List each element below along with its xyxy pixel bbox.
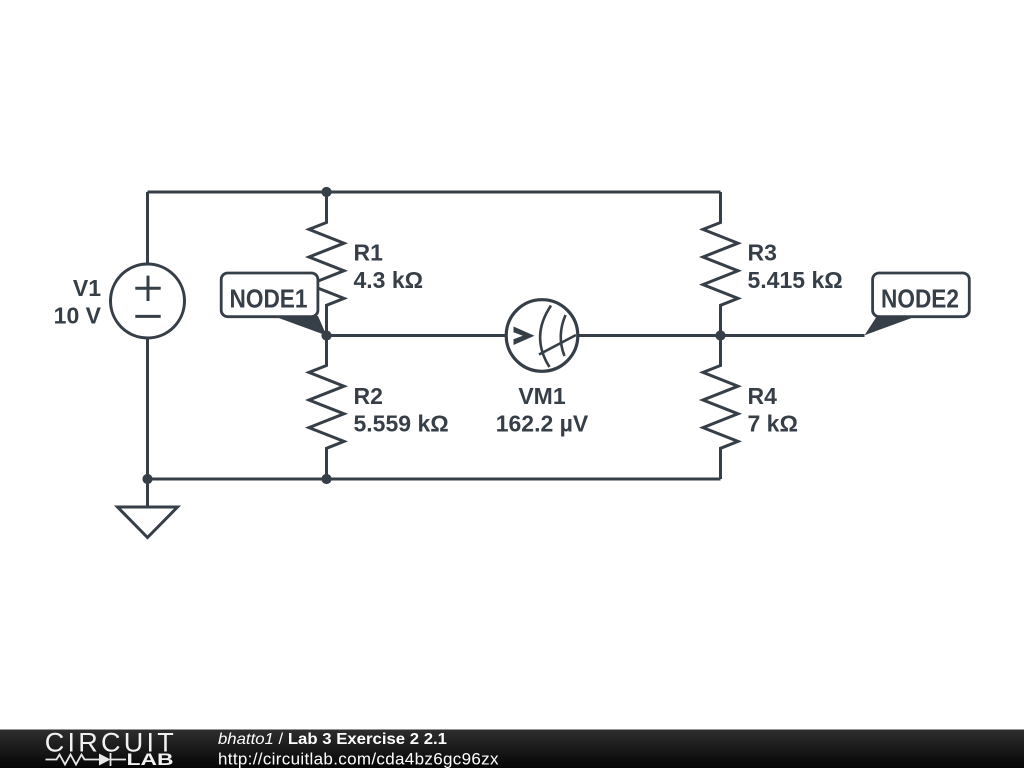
wire middle left — [327, 334, 507, 337]
node flag NODE2 — [865, 273, 970, 335]
resistor R2 — [309, 336, 344, 480]
svg-text:R1: R1 — [354, 240, 384, 266]
logo resistor-diode squiggle — [46, 753, 127, 766]
svg-text:NODE1: NODE1 — [230, 286, 308, 314]
svg-text:V1: V1 — [73, 275, 101, 301]
svg-text:VM1: VM1 — [518, 383, 566, 409]
wire V1 bottom lead — [146, 338, 149, 479]
node junction top-left branch — [321, 187, 331, 197]
resistor R1 — [309, 192, 344, 336]
resistor R3 — [703, 192, 738, 336]
svg-text:R3: R3 — [748, 240, 777, 266]
svg-text:bhatto1 / Lab 3 Exercise 2 2.1: bhatto1 / Lab 3 Exercise 2 2.1 — [218, 731, 447, 748]
footer bar — [0, 730, 1024, 768]
svg-text:NODE2: NODE2 — [881, 286, 959, 314]
node junction NODE2 — [715, 330, 725, 340]
node flag NODE1 — [221, 273, 326, 336]
wire middle right — [578, 334, 721, 337]
wire bottom rail — [148, 478, 721, 481]
ground — [118, 507, 178, 538]
node junction ground — [142, 474, 152, 484]
svg-text:7 kΩ: 7 kΩ — [748, 411, 798, 437]
voltmeter V letter — [514, 327, 535, 346]
wire to NODE2 — [721, 334, 865, 337]
svg-text:5.415 kΩ: 5.415 kΩ — [748, 267, 843, 293]
wire top rail — [148, 191, 721, 194]
svg-text:LAB: LAB — [127, 750, 174, 768]
svg-text:R4: R4 — [748, 383, 778, 409]
svg-text:R2: R2 — [354, 383, 383, 409]
node junction NODE1 — [321, 330, 331, 340]
wire V1 top lead — [146, 192, 149, 264]
svg-text:10 V: 10 V — [54, 303, 102, 329]
node junction bottom-left branch — [321, 474, 331, 484]
voltmeter VM1 — [506, 300, 578, 372]
resistor R4 — [703, 336, 738, 480]
svg-text:http://circuitlab.com/cda4bz6g: http://circuitlab.com/cda4bz6gc96zx — [218, 749, 499, 768]
svg-text:162.2 µV: 162.2 µV — [496, 411, 589, 437]
svg-text:4.3 kΩ: 4.3 kΩ — [354, 267, 424, 293]
svg-text:5.559 kΩ: 5.559 kΩ — [354, 411, 449, 437]
wire ground stub — [146, 479, 149, 507]
voltage source V1 — [111, 264, 185, 338]
